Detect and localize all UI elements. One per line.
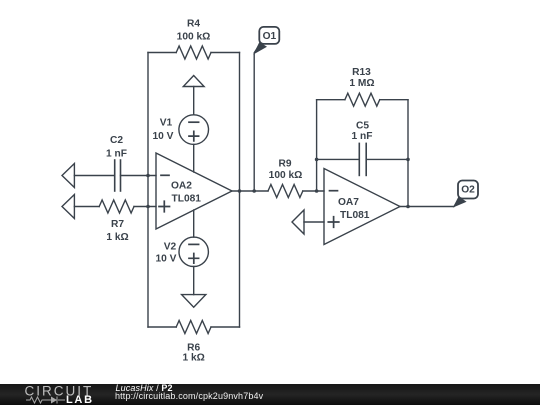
wire arrow to OA7 + — [304, 221, 324, 223]
junction node on R7/non-inverting bus — [146, 205, 150, 209]
op-amp OA2 — [156, 153, 232, 229]
voltage source V1 — [179, 115, 209, 145]
ground — [182, 295, 206, 308]
wire from IN1 to C2 — [74, 175, 114, 177]
junction node R9/R13-C5 left — [315, 189, 319, 193]
resistor R6 — [148, 321, 240, 334]
wire OA7 output — [400, 199, 459, 207]
svg-text:R13: R13 — [352, 67, 371, 78]
wire right vertical feedback bus — [239, 53, 241, 328]
wire left vertical feedback bus — [147, 53, 149, 328]
OA2 minus marker — [161, 174, 169, 176]
svg-text:http://circuitlab.com/cpk2u9nv: http://circuitlab.com/cpk2u9nvh7b4v — [115, 391, 264, 401]
footer bar — [0, 383, 540, 405]
resistor R7 — [99, 200, 134, 213]
OA7 plus marker — [328, 217, 339, 228]
terminal arrow above V1 — [183, 76, 204, 87]
capacitor C5 — [317, 143, 408, 175]
OA7 minus marker — [330, 190, 338, 192]
wire C2 to op-amp inverting input — [121, 175, 157, 177]
voltage source V2 — [179, 237, 208, 266]
svg-text:10 V: 10 V — [156, 254, 177, 265]
svg-text:OA7: OA7 — [338, 197, 359, 208]
vertical wire R13/C5 right — [407, 100, 409, 207]
svg-text:TL081: TL081 — [340, 210, 370, 221]
svg-text:C2: C2 — [110, 135, 123, 146]
input terminal arrow IN2 — [62, 195, 74, 219]
svg-text:1 MΩ: 1 MΩ — [349, 78, 374, 89]
wire OA2 output row — [232, 190, 268, 192]
flag O2 — [453, 181, 478, 208]
svg-text:1 kΩ: 1 kΩ — [183, 353, 205, 364]
svg-text:R9: R9 — [278, 159, 291, 170]
input terminal arrow IN1 — [62, 164, 74, 188]
svg-text:LAB: LAB — [66, 394, 94, 405]
wire OA2 V- to V2 — [193, 210, 195, 237]
wire R7 to op-amp non-inverting input — [134, 206, 156, 208]
svg-text:1 nF: 1 nF — [106, 149, 127, 160]
logo resistor-diode line — [26, 397, 65, 404]
svg-text:C5: C5 — [356, 121, 369, 132]
wire IN2 to R7 — [74, 206, 99, 208]
resistor R9 — [268, 185, 303, 198]
flag O1 — [253, 27, 279, 55]
svg-text:10 V: 10 V — [153, 131, 174, 142]
wire V2 to ground — [193, 267, 195, 295]
wire O1 branch — [254, 45, 259, 192]
svg-text:R4: R4 — [187, 19, 200, 30]
resistor R4 — [148, 46, 240, 59]
OA2 plus marker — [159, 201, 170, 212]
junction node on C2/inverting bus — [146, 174, 150, 178]
svg-text:R7: R7 — [111, 219, 124, 230]
svg-text:100 kΩ: 100 kΩ — [269, 170, 303, 181]
svg-text:O1: O1 — [263, 31, 277, 42]
junction node output/O1 branch — [252, 189, 256, 193]
svg-text:V2: V2 — [164, 242, 177, 253]
wire V1 to OA2 V+ — [193, 144, 195, 172]
capacitor C2 — [115, 160, 121, 191]
terminal arrow at OA7 + input — [292, 210, 304, 234]
junction node C5 right — [406, 158, 410, 162]
op-amp OA7 — [324, 169, 400, 245]
svg-text:1 nF: 1 nF — [352, 131, 373, 142]
svg-text:V1: V1 — [160, 118, 173, 129]
svg-text:1 kΩ: 1 kΩ — [106, 232, 128, 243]
svg-text:OA2: OA2 — [171, 181, 192, 192]
junction node OA7 output — [406, 205, 410, 209]
resistor R13 — [317, 93, 408, 106]
svg-text:O2: O2 — [461, 185, 475, 196]
svg-text:100 kΩ: 100 kΩ — [177, 32, 211, 43]
junction node C5 left — [315, 158, 319, 162]
junction node output/right bus — [238, 189, 242, 193]
svg-text:TL081: TL081 — [172, 194, 202, 205]
wire R9 to OA7 inverting input — [303, 190, 324, 192]
vertical wire R13/C5 left — [316, 100, 318, 191]
wire arrow to V1 — [193, 87, 195, 115]
